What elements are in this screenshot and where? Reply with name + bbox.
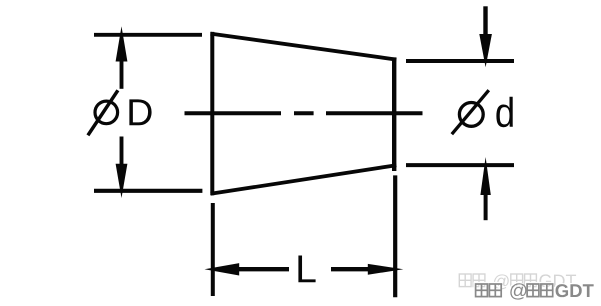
diameter symbol of D	[95, 101, 118, 124]
d bottom extension line	[406, 163, 514, 167]
cone right edge	[392, 57, 396, 171]
cone top slant line	[211, 34, 397, 60]
L right extension line	[393, 175, 397, 297]
d upper shaft	[483, 6, 487, 35]
D down arrowhead	[116, 164, 128, 198]
label d	[496, 97, 512, 127]
L left arrowhead	[205, 263, 240, 275]
D dimension upper shaft	[120, 58, 124, 89]
L dim line right segment	[331, 267, 369, 271]
label D	[129, 99, 151, 125]
diameter symbol of d	[459, 103, 483, 127]
L dim line left segment	[238, 267, 289, 271]
cone left edge	[210, 32, 214, 195]
cone bottom slant line	[211, 165, 397, 194]
watermark line 1: zhihu @wanzhuanGDT (light gray, CJK glyphs approximated as shapes)	[459, 274, 536, 287]
D bottom extension line	[94, 189, 202, 193]
label L	[298, 255, 315, 282]
center line short dash	[294, 111, 314, 115]
center line dash 2	[326, 111, 423, 115]
d lower shaft	[484, 193, 488, 220]
D dimension lower shaft	[120, 137, 124, 167]
L left extension line	[211, 203, 215, 296]
L right arrowhead	[368, 264, 404, 275]
d top extension line	[406, 59, 514, 63]
watermark line 2: toutiao @wanzhuanGDT (gray with white emboss, CJK approximated)	[474, 282, 592, 298]
center line dash 1	[185, 111, 282, 115]
D top extension line	[94, 33, 202, 37]
d down arrowhead	[479, 34, 492, 67]
d up arrowhead	[480, 157, 490, 195]
D up arrowhead	[116, 26, 128, 61]
